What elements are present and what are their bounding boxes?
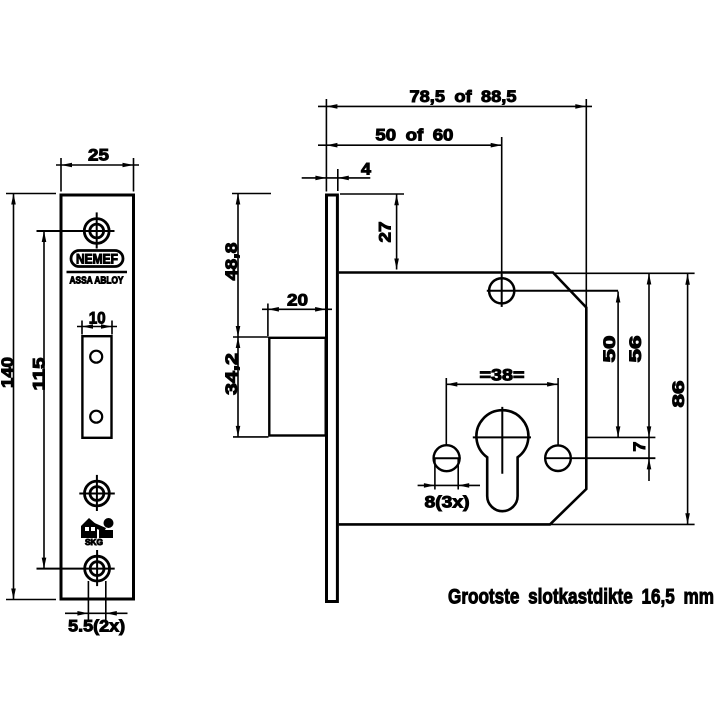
svg-text:Grootste slotkastdikte 16,5 mm: Grootste slotkastdikte 16,5 mm	[448, 585, 714, 609]
svg-text:5.5(2x): 5.5(2x)	[68, 617, 125, 636]
svg-text:115: 115	[30, 358, 49, 391]
svg-text:86: 86	[669, 381, 688, 408]
svg-text:25: 25	[88, 146, 109, 165]
svg-text:48,8: 48,8	[222, 243, 241, 281]
svg-text:34,2: 34,2	[222, 353, 241, 395]
svg-text:56: 56	[626, 336, 645, 363]
svg-text:=38=: =38=	[480, 365, 525, 384]
svg-text:SKG: SKG	[85, 537, 103, 547]
svg-text:140: 140	[0, 357, 17, 388]
svg-text:4: 4	[361, 160, 372, 179]
svg-text:27: 27	[376, 222, 395, 243]
svg-text:NEMEF: NEMEF	[76, 252, 118, 267]
svg-text:78,5 of 88,5: 78,5 of 88,5	[410, 87, 517, 106]
svg-text:20: 20	[287, 290, 308, 309]
svg-text:ASSA ABLOY: ASSA ABLOY	[70, 275, 124, 286]
svg-text:8(3x): 8(3x)	[425, 493, 470, 512]
svg-text:50: 50	[600, 336, 619, 363]
svg-text:7: 7	[630, 442, 649, 452]
svg-text:50 of 60: 50 of 60	[375, 126, 453, 145]
